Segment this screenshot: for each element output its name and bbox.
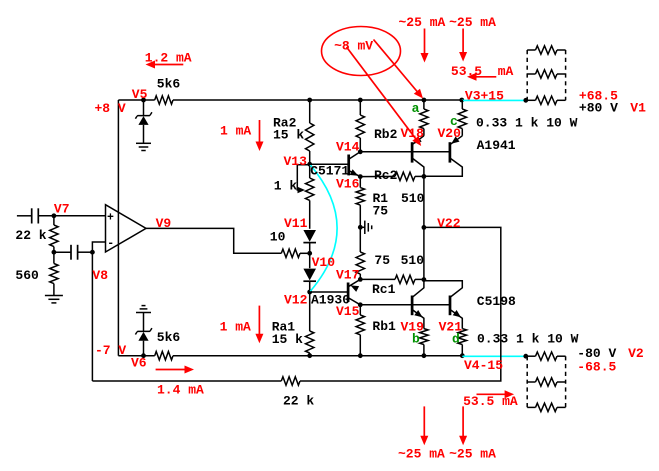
resistor Rc2 [360, 172, 424, 180]
wire V8 up to op-amp - [92, 242, 105, 252]
arrow ~25 mA top left [421, 29, 429, 63]
label ~25 mA bottom right [449, 446, 496, 461]
bottom resistor bank 1 k 10 W [527, 352, 565, 412]
transistor V21 (C5198) [424, 281, 462, 329]
resistor Rb2 [356, 100, 364, 152]
arrow 1 mA top [256, 120, 264, 151]
transistor V19 (C5198) [412, 280, 424, 329]
node top bank [523, 98, 528, 103]
svg-text:V6: V6 [131, 355, 147, 370]
svg-text:15 k: 15 k [273, 128, 304, 143]
label 1.4 mA [157, 383, 204, 398]
label V22 [437, 216, 461, 231]
arrow 1.4 mA [156, 366, 194, 374]
label V20 [438, 126, 462, 141]
node Ra1 bottom [307, 353, 312, 358]
resistor Rc1 [360, 275, 424, 283]
label R1 [373, 191, 389, 218]
svg-text:V8: V8 [92, 268, 108, 283]
label b [412, 331, 420, 346]
node Rb1 bottom [358, 353, 363, 358]
node V5 [141, 98, 146, 103]
label V6 [131, 355, 147, 370]
label 53.5 mA top [451, 64, 514, 79]
svg-text:5k6: 5k6 [157, 330, 181, 345]
wire V7 junction to cap2 [54, 251, 71, 253]
cyan arc V13 to V12 [310, 165, 337, 292]
resistor Ra1 [306, 292, 314, 356]
label d [452, 331, 460, 346]
label -68.5 [577, 359, 616, 374]
svg-text:V12: V12 [284, 293, 308, 308]
node R1 midpoint [358, 225, 363, 230]
svg-text:V5: V5 [132, 87, 148, 102]
wire V8 down to feedback [91, 252, 93, 381]
svg-text:V9: V9 [156, 216, 172, 231]
svg-text:22 k: 22 k [283, 394, 314, 409]
svg-text:~25 mA: ~25 mA [449, 15, 496, 30]
svg-text:V19: V19 [401, 320, 425, 335]
svg-text:+8 V: +8 V [95, 101, 126, 116]
wire V15 base line [360, 304, 450, 306]
label V1 [630, 100, 646, 115]
arrow diagonal B to V18 [347, 47, 422, 146]
arrow 1.2 mA [146, 61, 184, 69]
transistor C5171 [310, 152, 361, 177]
svg-text:V2: V2 [628, 346, 644, 361]
svg-text:510: 510 [401, 191, 425, 206]
resistor 5k6 top label [157, 76, 181, 91]
svg-text:V20: V20 [438, 126, 462, 141]
node Rb2 top [358, 98, 363, 103]
resistor b (0.33 bottom left) [420, 329, 428, 356]
label 22 k feedback [283, 394, 314, 409]
arrow ~25 mA bottom left [420, 406, 428, 445]
svg-text:mA: mA [498, 64, 514, 79]
arrow diagonal A to rail [374, 40, 424, 99]
label +80 V [579, 100, 618, 115]
svg-text:Rb2: Rb2 [374, 127, 398, 142]
svg-text:15 k: 15 k [272, 332, 303, 347]
svg-text:Rb1: Rb1 [372, 319, 396, 334]
resistor 10 [281, 249, 309, 257]
wire cap to op-amp + [38, 215, 105, 217]
svg-text:V17: V17 [336, 268, 359, 283]
resistor Ra2 [306, 100, 314, 164]
label V17 [336, 268, 359, 283]
svg-text:+80 V: +80 V [579, 100, 618, 115]
svg-text:V15: V15 [336, 304, 360, 319]
svg-text:V13: V13 [284, 154, 308, 169]
resistor 1 k trimmer [306, 164, 314, 229]
svg-text:V4-15: V4-15 [464, 358, 503, 373]
svg-text:V14: V14 [336, 139, 360, 154]
svg-text:10: 10 [270, 229, 286, 244]
wire V14 base line [360, 151, 450, 153]
svg-text:~25 mA: ~25 mA [399, 15, 446, 30]
wire collector bus V22 [423, 176, 425, 279]
label ~8 mV [334, 39, 373, 54]
resistor c (0.33 top right) [458, 100, 466, 136]
label V18 [401, 126, 425, 141]
ground below V5 [136, 143, 151, 150]
label 0.33 1 k 10 W bottom [477, 331, 579, 346]
wire bottom rail (V4-15 net) [118, 352, 462, 360]
wire top rail (V3+15 net) [118, 96, 461, 104]
label ~25 mA top right [449, 15, 496, 30]
label Rc1 [372, 282, 396, 297]
resistor Rb1 [356, 305, 364, 356]
svg-text:+: + [107, 211, 114, 224]
node 22k/560 junction [52, 250, 57, 255]
node V3+15 [459, 98, 464, 103]
label Ra2 [273, 116, 304, 143]
label -7 V [95, 343, 126, 358]
node bottom bank [523, 354, 528, 359]
ground below 560 [45, 296, 63, 303]
svg-text:C5198: C5198 [477, 294, 516, 309]
transistor V18 (A1941) [412, 136, 424, 177]
resistor d (0.33 bottom right) [458, 329, 466, 356]
label V8 [92, 268, 108, 283]
node V13 [307, 162, 312, 167]
node V8 [90, 250, 95, 255]
svg-text:560: 560 [15, 268, 39, 283]
label V2 [628, 346, 644, 361]
wire cap2 to V8 [78, 251, 93, 253]
arrow ~25 mA top right [459, 29, 467, 62]
label V10 [312, 255, 336, 270]
label V15 [336, 304, 360, 319]
svg-text:V11: V11 [284, 216, 308, 231]
label V9 [156, 216, 172, 231]
resistor 22 k feedback [92, 377, 300, 385]
label Rc2 [374, 168, 398, 183]
svg-text:V22: V22 [437, 216, 461, 231]
svg-text:V3+15: V3+15 [465, 88, 504, 103]
top resistor bank 1 k 10 W [527, 46, 565, 105]
svg-text:~8 mV: ~8 mV [334, 39, 373, 54]
svg-text:a: a [412, 101, 420, 116]
svg-text:5k6: 5k6 [157, 76, 181, 91]
resistor 5k6 bottom label [157, 330, 181, 345]
transistor A1930 [310, 279, 361, 304]
arrow ~25 mA bottom right [459, 406, 467, 445]
node V17 [358, 277, 363, 282]
svg-text:75: 75 [373, 203, 389, 218]
label c [450, 114, 458, 129]
node V6 [141, 353, 146, 358]
wire V22 to feedback [300, 227, 501, 381]
label 22 k input [15, 228, 46, 243]
label A1930 [311, 293, 350, 308]
label V16 [336, 177, 360, 192]
node V15 [358, 302, 363, 307]
svg-text:1 mA: 1 mA [220, 320, 251, 335]
wire cyan top rail extension [462, 99, 526, 101]
svg-text:-68.5: -68.5 [577, 359, 616, 374]
label Rb1 [372, 319, 396, 334]
label 10 [270, 229, 286, 244]
label V4-15 [464, 358, 503, 373]
capacitor input [32, 208, 39, 223]
node V16 [358, 174, 363, 179]
ground above V6 [136, 306, 151, 313]
svg-text:V16: V16 [336, 177, 360, 192]
node V22 [422, 225, 427, 230]
wire input stub [17, 215, 32, 217]
label 0.33 1 k 10 W top [476, 116, 578, 131]
diode V11 [303, 230, 316, 253]
label a [412, 101, 420, 116]
diode V10-V12 [303, 253, 316, 292]
svg-text:0.33 1 k 10 W: 0.33 1 k 10 W [477, 331, 579, 346]
op-amp U1 [106, 205, 147, 252]
label Ra1 [272, 320, 303, 347]
resistor R1 75 upper [356, 177, 364, 228]
node V7 [52, 213, 57, 218]
label C5171 [310, 164, 349, 179]
label V19 [401, 320, 425, 335]
label V12 [284, 293, 308, 308]
svg-text:0.33 1 k 10 W: 0.33 1 k 10 W [476, 116, 578, 131]
svg-text:1 k: 1 k [274, 179, 298, 194]
label V3+15 [465, 88, 504, 103]
svg-text:Rc1: Rc1 [372, 282, 396, 297]
resistor 560 [50, 252, 58, 295]
label V7 [54, 202, 70, 217]
label 75 510 lower [374, 253, 424, 268]
svg-text:510: 510 [401, 253, 425, 268]
capacitor to inverting input [71, 245, 78, 260]
label 510 upper [401, 191, 425, 206]
wire left supply vertical [117, 100, 119, 356]
label 1 k [274, 179, 298, 194]
node V10 [307, 251, 312, 256]
node a-resistor top [422, 98, 427, 103]
svg-text:~25 mA: ~25 mA [398, 446, 445, 461]
zener diode V6 [135, 313, 152, 356]
label 1 mA bottom [220, 320, 251, 335]
label Rb2 [374, 127, 398, 142]
node V14 [358, 149, 363, 154]
ellipse ~8 mV [322, 27, 401, 76]
svg-text:V7: V7 [54, 202, 70, 217]
label 1.2 mA [145, 51, 192, 66]
label +68.5 [579, 89, 618, 104]
node b-resistor bottom [422, 353, 427, 358]
node V4-15 [460, 353, 465, 358]
node Rc2 junction [422, 174, 427, 179]
node Ra2 top [307, 98, 312, 103]
resistor 22 k input [50, 216, 58, 252]
svg-text:~25 mA: ~25 mA [449, 446, 496, 461]
svg-text:53.5 mA: 53.5 mA [463, 394, 518, 409]
label V21 [439, 320, 463, 335]
label -80 V [577, 346, 616, 361]
node Rc1 junction [422, 277, 427, 282]
label 1 mA top [220, 123, 251, 138]
label ~25 mA bottom left [398, 446, 445, 461]
wire op-amp output [146, 228, 281, 253]
svg-text:Rc2: Rc2 [374, 168, 398, 183]
label 560 [15, 268, 39, 283]
svg-text:1.4 mA: 1.4 mA [157, 383, 204, 398]
label V11 [284, 216, 308, 231]
label V14 [336, 139, 360, 154]
svg-text:V10: V10 [312, 255, 336, 270]
wire cyan bottom rail extension [462, 355, 526, 357]
label 53.5 mA bottom [463, 394, 518, 409]
label +8 V [95, 101, 126, 116]
resistor a (0.33 top left) [420, 100, 428, 136]
zener diode V5 [135, 100, 152, 143]
svg-text:A1941: A1941 [477, 138, 516, 153]
svg-text:22 k: 22 k [15, 228, 46, 243]
label ~25 mA top left [399, 15, 446, 30]
transistor V20 (A1941) [424, 136, 462, 176]
label A1941 [477, 138, 516, 153]
svg-text:V1: V1 [630, 100, 646, 115]
svg-text:1 mA: 1 mA [220, 123, 251, 138]
resistor 75 lower [356, 227, 364, 279]
svg-text:-7 V: -7 V [95, 343, 126, 358]
arrow 53.5 mA top [467, 73, 496, 81]
svg-text:V21: V21 [439, 320, 463, 335]
label V13 [284, 154, 308, 169]
node V12 [307, 290, 312, 295]
arrow 1 mA bottom [255, 306, 263, 344]
label V5 [132, 87, 148, 102]
label C5198 [477, 294, 516, 309]
svg-text:-: - [107, 238, 114, 251]
arrow 53.5 mA bottom [477, 390, 515, 398]
svg-text:75: 75 [374, 253, 390, 268]
trimmer wiper arrow [297, 165, 309, 193]
ground at R1 midpoint [360, 221, 371, 234]
